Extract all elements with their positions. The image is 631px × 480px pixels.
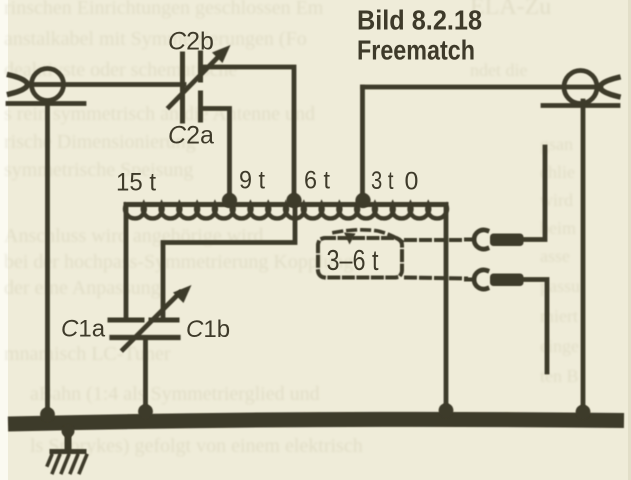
ground hatching xyxy=(48,456,87,473)
variable arrow C1 xyxy=(123,293,180,350)
node 3t tap xyxy=(355,193,370,208)
plug body upper xyxy=(490,234,524,247)
node 6t tap xyxy=(286,193,301,208)
wire: lower connector down stub xyxy=(523,280,547,373)
wire: C2a to 9t tap xyxy=(201,109,230,203)
svg-text:symmetrische Speisung: symmetrische Speisung xyxy=(4,159,193,181)
capacitor C1a top plate xyxy=(110,318,142,323)
arrowhead link (v pointing down) xyxy=(344,233,356,245)
plug body lower xyxy=(490,274,524,287)
capacitor C2b stator plate xyxy=(198,53,203,80)
svg-text:rinschen Einrichtungen geschlo: rinschen Einrichtungen geschlossen Em xyxy=(4,0,324,19)
dashed line to lower connector xyxy=(406,278,466,279)
svg-text:s rein symmetrisch an die Ante: s rein symmetrisch an die Antenne und xyxy=(4,103,315,125)
node 9t tap xyxy=(222,193,237,208)
ground bus bar xyxy=(8,419,624,424)
wire: C2b to 6t tap xyxy=(201,67,294,202)
coupling link dashed box xyxy=(318,238,402,278)
antenna insulator circle left xyxy=(32,69,64,101)
counterpoise bar left xyxy=(8,101,84,106)
node ground: left vertical xyxy=(40,407,55,422)
node ground stub blob xyxy=(62,425,75,438)
svg-text:C1a: C1a xyxy=(61,316,106,343)
counterpoise bar right xyxy=(543,103,618,108)
capacitor C1 common bottom plate xyxy=(112,335,178,340)
capacitor C1b top plate xyxy=(151,318,177,323)
variable arrow C2 xyxy=(169,54,221,107)
svg-text:bei der hochpass-Symmetrierung: bei der hochpass-Symmetrierung Kopplung xyxy=(4,251,353,273)
socket upper (arc) xyxy=(474,230,487,249)
svg-text:9 t: 9 t xyxy=(239,167,265,195)
svg-text:ndet die: ndet die xyxy=(470,60,527,80)
svg-text:C2a: C2a xyxy=(168,122,214,150)
wire: 6t tap down and across to C1b xyxy=(163,205,295,319)
node ground: right vertical xyxy=(576,405,591,420)
socket lower (arc) xyxy=(474,270,487,289)
svg-text:der eine Anpassung: der eine Anpassung xyxy=(4,277,161,299)
svg-text:ELA-Zu: ELA-Zu xyxy=(470,0,551,20)
wire: left antenna feed to C2 rotor xyxy=(27,82,184,87)
ground plate xyxy=(52,449,84,454)
svg-text:6 t: 6 t xyxy=(304,167,330,195)
svg-text:15 t: 15 t xyxy=(116,169,156,197)
dashed line to upper connector xyxy=(406,238,466,242)
antenna terminal right (fork) xyxy=(600,78,619,97)
wire: 3t feed to right antenna xyxy=(363,85,602,90)
wire: 15t end down to C1a xyxy=(124,205,129,319)
coil main line xyxy=(126,202,446,207)
svg-text:Bild 8.2.18: Bild 8.2.18 xyxy=(357,5,482,36)
svg-text:C2b: C2b xyxy=(168,28,214,56)
svg-text:anstalkabel mit Symmetrierunge: anstalkabel mit Symmetrierungen (Fo xyxy=(4,28,307,50)
antenna terminal left (fork) xyxy=(10,75,29,94)
svg-text:aBahn (1:4 als Symmetrierglied: aBahn (1:4 als Symmetrierglied und xyxy=(30,383,320,405)
filled parts xyxy=(40,45,590,438)
wire: right vertical to ground bus xyxy=(581,101,586,417)
arrowhead C1 xyxy=(173,285,192,303)
svg-text:3 t: 3 t xyxy=(371,167,394,195)
node ground: C1 xyxy=(138,404,153,419)
svg-text:asse: asse xyxy=(540,246,570,266)
dashed arrow over link xyxy=(334,230,402,242)
arrowhead C2 xyxy=(212,45,231,63)
antenna insulator circle right xyxy=(564,71,597,104)
svg-text:0: 0 xyxy=(405,168,419,196)
capacitor C2a stator plate xyxy=(198,93,203,120)
wire: 3t riser xyxy=(360,87,365,202)
wire: left vertical to ground bus xyxy=(45,104,50,420)
wire: C1 rotor to ground bus xyxy=(143,340,148,416)
svg-text:C1b: C1b xyxy=(186,316,230,343)
node ground: coil end xyxy=(439,403,454,418)
coil scallops xyxy=(125,205,447,219)
svg-text:Freematch: Freematch xyxy=(357,35,475,66)
ground stub xyxy=(65,425,72,449)
wire: coil 0 end down to ground bus xyxy=(444,205,449,416)
svg-text:rische Dimensionierung: rische Dimensionierung xyxy=(4,131,196,153)
svg-text:3–6 t: 3–6 t xyxy=(327,245,379,277)
capacitor C2 rotor plate xyxy=(180,54,185,121)
wire: upper connector to stub xyxy=(523,147,545,240)
